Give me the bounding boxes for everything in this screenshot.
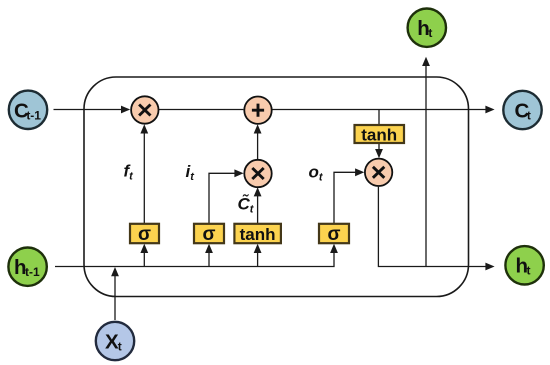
- svg-text:tanh: tanh: [240, 225, 276, 244]
- svg-text:σ: σ: [138, 224, 151, 245]
- svg-text:σ: σ: [203, 224, 216, 245]
- svg-text:Ct: Ct: [515, 100, 531, 123]
- svg-text:σ: σ: [328, 224, 341, 245]
- svg-text:tanh: tanh: [361, 125, 397, 144]
